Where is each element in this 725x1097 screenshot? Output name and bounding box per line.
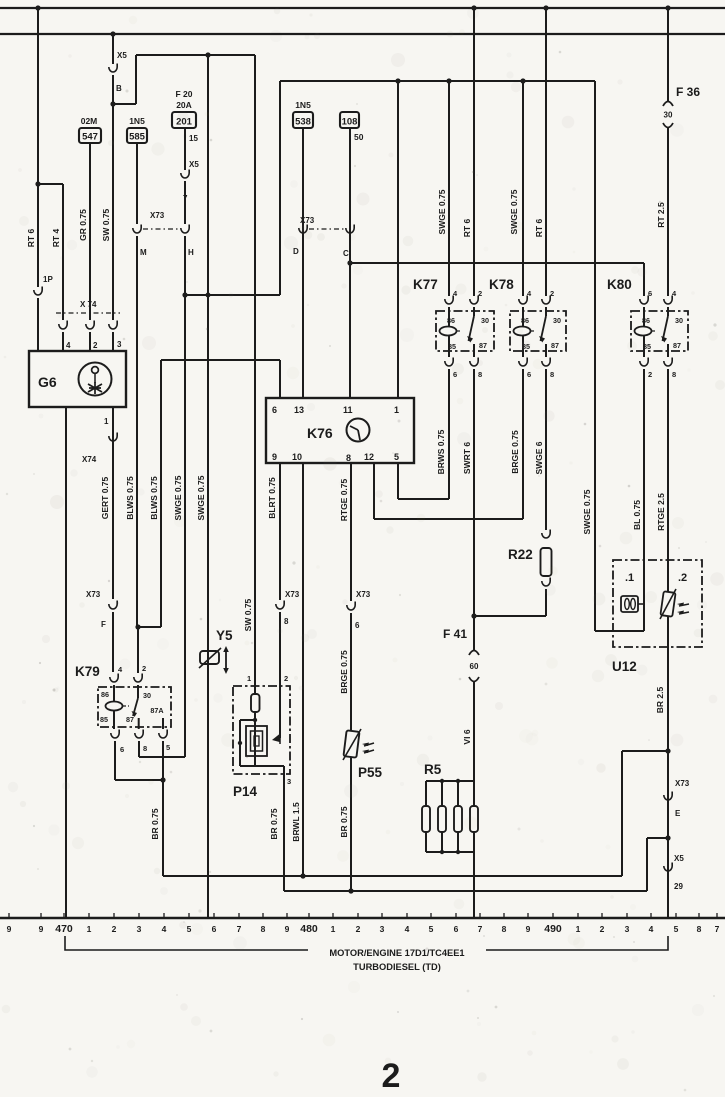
node junction x185 y295 [182, 292, 187, 297]
svg-text:87: 87 [126, 715, 134, 724]
wire RT6 drop from bus1 [37, 8, 39, 184]
node junction bus1 x546 [543, 5, 548, 10]
svg-text:K77: K77 [413, 277, 438, 292]
node junction x351 y891 [348, 888, 353, 893]
svg-text:X73: X73 [300, 216, 315, 225]
svg-text:6: 6 [648, 289, 652, 298]
wire SWGE to U12 [594, 81, 596, 631]
svg-text:6: 6 [272, 405, 277, 415]
svg-text:VI 6: VI 6 [462, 729, 472, 744]
node junction bus1 x668 [665, 5, 670, 10]
node junction rail x523 [520, 78, 525, 83]
wire 585 down [136, 143, 138, 224]
svg-text:RT 6: RT 6 [462, 219, 472, 238]
arrow P14 [272, 734, 280, 742]
box 108 [340, 112, 359, 128]
svg-text:GR 0.75: GR 0.75 [78, 209, 88, 241]
wire K79 pin5 out [162, 741, 164, 876]
wire K76 pin1 to rail [397, 81, 399, 398]
svg-text:E: E [675, 809, 681, 818]
svg-text:8: 8 [672, 370, 676, 379]
svg-text:K79: K79 [75, 664, 100, 679]
wire link y360 [161, 359, 280, 361]
svg-text:6: 6 [120, 745, 124, 754]
connector X74 pin3 [109, 321, 117, 330]
node junction P14 [253, 718, 257, 722]
svg-text:1: 1 [394, 405, 399, 415]
wire K79 coil [113, 685, 115, 702]
connector X74 pin4 [59, 321, 67, 330]
svg-text:86: 86 [101, 690, 109, 699]
wire pin4 stub [62, 332, 64, 352]
svg-text:SW 0.75: SW 0.75 [243, 598, 253, 631]
wire U12.2 through [667, 591, 669, 592]
svg-text:9: 9 [285, 924, 290, 934]
node junction x138 y627 [135, 624, 140, 629]
svg-text:SWGE 0.75: SWGE 0.75 [582, 489, 592, 534]
wire X73 dashed [143, 228, 180, 230]
wire branch right [113, 103, 136, 105]
resistor R22 bottom hook [542, 578, 550, 587]
svg-text:13: 13 [294, 405, 304, 415]
svg-text:SWGE 0.75: SWGE 0.75 [196, 475, 206, 520]
connector X74 pin2 [86, 321, 94, 330]
svg-text:87A: 87A [150, 706, 163, 715]
wire rail y81 [280, 80, 595, 82]
svg-text:7: 7 [478, 924, 483, 934]
wire 1P to G6 [37, 184, 39, 287]
node junction x668 y838 [665, 835, 670, 840]
svg-text:BLWS 0.75: BLWS 0.75 [149, 476, 159, 520]
wire 201 down [184, 128, 186, 170]
resistor R22 top hook [542, 530, 550, 539]
svg-text:1N5: 1N5 [129, 116, 145, 126]
element U12.2 glow plug [660, 591, 675, 616]
sensor P14 box [233, 686, 290, 774]
svg-text:8: 8 [346, 453, 351, 463]
svg-text:8: 8 [502, 924, 507, 934]
wire P14 pin3 out [283, 766, 285, 891]
svg-text:5: 5 [394, 452, 399, 462]
svg-text:1: 1 [104, 417, 109, 426]
connector X5 pin7 [181, 170, 189, 179]
svg-text:.1: .1 [625, 572, 634, 584]
wire branch to RT4 [38, 183, 63, 185]
svg-text:2: 2 [478, 289, 482, 298]
svg-text:30: 30 [675, 316, 683, 325]
svg-text:50: 50 [354, 132, 364, 142]
svg-text:3: 3 [380, 924, 385, 934]
svg-text:.2: .2 [678, 572, 687, 584]
svg-text:585: 585 [129, 132, 146, 143]
generator G6 box [29, 351, 126, 407]
connector X73 pin D [299, 225, 307, 234]
wire pin12 down [373, 463, 375, 519]
box 585 [127, 128, 147, 143]
wire P14 loop [240, 719, 255, 721]
svg-text:4: 4 [162, 924, 167, 934]
svg-text:RT 2.5: RT 2.5 [656, 202, 666, 228]
svg-text:29: 29 [674, 882, 683, 891]
svg-text:SW 0.75: SW 0.75 [101, 208, 111, 241]
wire K77 pin6 out [448, 369, 450, 499]
svg-text:2: 2 [142, 664, 146, 673]
svg-text:MOTOR/ENGINE 17D1/TC4EE1: MOTOR/ENGINE 17D1/TC4EE1 [329, 948, 464, 958]
svg-text:108: 108 [342, 117, 358, 128]
switch K79 [137, 685, 139, 698]
svg-text:547: 547 [82, 132, 98, 143]
bracket motor group [65, 936, 668, 950]
wire P14 pin2 in [279, 686, 281, 738]
svg-text:BLRT 0.75: BLRT 0.75 [267, 477, 277, 519]
wire RT2.5 [667, 128, 669, 296]
svg-text:1: 1 [331, 924, 336, 934]
svg-text:SWGE 6: SWGE 6 [534, 441, 544, 474]
svg-text:02M: 02M [81, 116, 98, 126]
node junction x350 y263 [347, 260, 352, 265]
element P14 transducer [246, 726, 267, 756]
svg-text:X73: X73 [675, 779, 690, 788]
connector X73 pinF [109, 601, 117, 610]
wire RT4 down [62, 184, 64, 320]
wire bus line 30 (battery +) [0, 7, 725, 9]
svg-text:6: 6 [454, 924, 459, 934]
connector 1P [34, 287, 42, 296]
svg-text:C: C [343, 249, 349, 258]
svg-text:SWRT 6: SWRT 6 [462, 442, 472, 474]
svg-text:RT 6: RT 6 [534, 219, 544, 238]
svg-text:K76: K76 [307, 425, 333, 441]
connector X73 pin H [181, 225, 189, 234]
svg-text:2: 2 [382, 1057, 401, 1095]
box 547 [79, 128, 101, 143]
svg-text:8: 8 [143, 744, 147, 753]
wire SW drop x255 [254, 55, 256, 686]
box 538 [293, 112, 313, 128]
svg-text:4: 4 [405, 924, 410, 934]
svg-text:2: 2 [284, 674, 288, 683]
svg-text:6: 6 [212, 924, 217, 934]
wire P55 out [350, 757, 352, 891]
svg-text:X5: X5 [117, 51, 127, 60]
glow unit U12 box [613, 560, 702, 647]
svg-text:60: 60 [470, 662, 479, 671]
wire F36 from bus1 [667, 8, 669, 101]
svg-text:8: 8 [261, 924, 266, 934]
node junction x303 y876 [300, 873, 305, 878]
svg-text:3: 3 [117, 340, 122, 349]
svg-text:P14: P14 [233, 784, 258, 799]
svg-text:87: 87 [479, 341, 487, 350]
node junction bus1 x38 [35, 5, 40, 10]
wire K77 pin8 out [473, 369, 475, 650]
svg-text:SWGE 0.75: SWGE 0.75 [173, 475, 183, 520]
connector K79 pin8 [135, 730, 143, 739]
wire K79 pin8 link [138, 741, 140, 757]
connector K79 pin5 [159, 730, 167, 739]
wire pin9 down [279, 463, 281, 600]
node junction x113 y104 [110, 101, 115, 106]
svg-text:BRGE 0.75: BRGE 0.75 [510, 430, 520, 474]
relay K79 box [98, 687, 171, 727]
svg-text:X5: X5 [674, 854, 684, 863]
svg-text:8: 8 [478, 370, 482, 379]
node junctions R5 [440, 779, 444, 783]
wire pin5 down [397, 463, 399, 499]
wire link y295 [185, 294, 280, 296]
svg-text:30: 30 [481, 316, 489, 325]
track wire stubs [65, 910, 67, 918]
svg-text:BR 2.5: BR 2.5 [655, 687, 665, 714]
svg-text:TURBODIESEL (TD): TURBODIESEL (TD) [353, 962, 441, 972]
svg-text:4: 4 [649, 924, 654, 934]
svg-text:9: 9 [7, 924, 12, 934]
node junction x163 y780 [160, 777, 165, 782]
svg-text:3: 3 [625, 924, 630, 934]
svg-text:X73: X73 [150, 211, 165, 220]
svg-text:7: 7 [715, 924, 720, 934]
svg-text:G6: G6 [38, 374, 57, 390]
svg-text:87: 87 [551, 341, 559, 350]
wire pin2 stub [89, 332, 91, 352]
svg-text:30: 30 [664, 110, 673, 119]
node junction x38 y184 [35, 181, 40, 186]
wire riser x647 [646, 838, 648, 891]
svg-text:9: 9 [39, 924, 44, 934]
svg-text:Y5: Y5 [216, 628, 233, 643]
svg-text:2: 2 [550, 289, 554, 298]
svg-text:5: 5 [166, 743, 170, 752]
node junction rail x449 [446, 78, 451, 83]
element U12.1 [621, 596, 638, 612]
svg-text:8: 8 [697, 924, 702, 934]
svg-text:F 36: F 36 [676, 85, 700, 99]
sensor P55 [343, 730, 359, 757]
svg-text:30: 30 [143, 691, 151, 700]
resistor in P14 [254, 686, 256, 694]
current track ticks [8, 913, 10, 918]
wire K77 coil feed [448, 81, 450, 296]
wire G6 ground to rail31 [65, 407, 67, 918]
node junction bus2 x113 [110, 31, 115, 36]
wire pin3 stub [112, 332, 114, 352]
resistor R22 [541, 548, 552, 576]
wire X74 dashed line [56, 312, 120, 314]
wire BR2.5 [667, 647, 669, 918]
wire pin8 to P55 [350, 613, 352, 731]
wire K79 pin6 out [114, 741, 116, 780]
svg-text:1P: 1P [43, 275, 53, 284]
wire K76 pin6 stub [279, 360, 281, 398]
wire K80 feed [350, 262, 644, 264]
svg-text:F 41: F 41 [443, 627, 467, 641]
svg-text:8: 8 [550, 370, 554, 379]
svg-text:X73: X73 [356, 590, 371, 599]
svg-text:30: 30 [553, 316, 561, 325]
connector K79 pin2 [134, 674, 142, 683]
svg-text:87: 87 [673, 341, 681, 350]
svg-text:3: 3 [287, 777, 291, 786]
wire F20 down [184, 236, 186, 757]
svg-text:X74: X74 [82, 455, 97, 464]
fuse F41 [469, 651, 479, 656]
wire rail riser x280 [279, 81, 281, 295]
svg-text:X5: X5 [189, 160, 199, 169]
svg-text:5: 5 [674, 924, 679, 934]
generator G6 symbol [79, 363, 112, 396]
connector X73 pin6 [347, 602, 355, 611]
svg-text:2: 2 [648, 370, 652, 379]
solenoid Y5 [200, 651, 219, 664]
glow plug resistor R5.3 [457, 781, 459, 806]
svg-text:10: 10 [292, 452, 302, 462]
wire bus line 2 [0, 33, 725, 35]
svg-text:X73: X73 [285, 590, 300, 599]
connector X73 pin8 [276, 601, 284, 610]
svg-text:BLWS 0.75: BLWS 0.75 [125, 476, 135, 520]
wire R5 to rail31 [473, 852, 475, 918]
svg-text:20A: 20A [176, 100, 192, 110]
svg-text:BR 0.75: BR 0.75 [269, 808, 279, 839]
svg-text:P55: P55 [358, 765, 383, 780]
node junction x474 y616 [471, 613, 476, 618]
wire 538 down [302, 128, 304, 398]
svg-text:480: 480 [300, 923, 318, 935]
wire gather y891 [284, 890, 647, 892]
wire 585 to K79 pin2 [136, 236, 138, 627]
wire gather y876 [163, 875, 622, 877]
svg-text:1: 1 [87, 924, 92, 934]
svg-text:F: F [101, 620, 106, 629]
svg-text:BRWL 1.5: BRWL 1.5 [291, 802, 301, 842]
svg-text:2: 2 [93, 341, 98, 350]
svg-text:470: 470 [55, 923, 73, 935]
box 201 [172, 112, 196, 128]
wire K78 coil feed [522, 81, 524, 296]
node junction x208 y295 [206, 293, 211, 298]
connector X5 pin B [109, 64, 117, 73]
svg-text:9: 9 [272, 452, 277, 462]
svg-text:BRGE 0.75: BRGE 0.75 [339, 650, 349, 694]
svg-text:8: 8 [284, 617, 289, 626]
svg-text:5: 5 [429, 924, 434, 934]
wire SW0.75 from bus2 [112, 34, 114, 64]
node junction P14 b [238, 741, 242, 745]
svg-text:1: 1 [247, 674, 251, 683]
wire to X73 [184, 181, 186, 224]
fuse F36 [663, 102, 673, 107]
wire U12 link [595, 630, 644, 632]
svg-text:BRWS 0.75: BRWS 0.75 [436, 429, 446, 474]
svg-text:2: 2 [356, 924, 361, 934]
wire pin9 to P14 [279, 612, 281, 686]
connector X73 pin M [133, 225, 141, 234]
wire R22 out [545, 589, 547, 616]
wire riser x622 [621, 751, 623, 876]
node junction x208 y55 [205, 52, 210, 57]
svg-text:RT 6: RT 6 [26, 229, 36, 248]
node junction x668 y751 [665, 748, 670, 753]
wire GR0.75 down [89, 143, 91, 320]
glow plug resistor R5.2 [441, 781, 443, 806]
node junction rail x398 [395, 78, 400, 83]
wire rail 31 track line [0, 917, 725, 919]
svg-text:9: 9 [526, 924, 531, 934]
svg-text:SWGE 0.75: SWGE 0.75 [437, 189, 447, 234]
wire K80 pin8 out [667, 369, 669, 591]
wire K79 87A stub [162, 718, 164, 729]
svg-text:15: 15 [189, 134, 198, 143]
svg-text:GERT 0.75: GERT 0.75 [100, 476, 110, 519]
wire pin10 down [302, 463, 304, 876]
wire 108 down [349, 128, 351, 398]
svg-text:K78: K78 [489, 277, 514, 292]
svg-text:85: 85 [100, 715, 108, 724]
svg-text:1N5: 1N5 [295, 100, 311, 110]
svg-text:X 74: X 74 [80, 300, 97, 309]
wire pin8 down [350, 463, 352, 601]
svg-text:6: 6 [527, 370, 531, 379]
arrow Y5 [225, 651, 227, 669]
svg-text:2: 2 [112, 924, 117, 934]
connector X73 pinE [664, 792, 672, 801]
svg-text:4: 4 [66, 341, 71, 350]
wire SWGE drop x208 [207, 55, 209, 918]
svg-text:3: 3 [137, 924, 142, 934]
svg-text:BL 0.75: BL 0.75 [632, 500, 642, 530]
node junction bus1 x474 [471, 5, 476, 10]
glow plug resistor R5.4 [473, 781, 475, 806]
svg-text:BR 0.75: BR 0.75 [339, 806, 349, 837]
svg-text:490: 490 [544, 923, 562, 935]
svg-text:7: 7 [237, 924, 242, 934]
svg-text:12: 12 [364, 452, 374, 462]
connector X5 pin29 [664, 863, 672, 872]
connector K79 pin6 [111, 730, 119, 739]
svg-text:1: 1 [576, 924, 581, 934]
svg-text:6: 6 [355, 621, 360, 630]
wire BLWS b down [160, 360, 162, 627]
svg-text:11: 11 [343, 405, 353, 415]
svg-text:BR 0.75: BR 0.75 [150, 808, 160, 839]
timer symbol [347, 419, 370, 442]
wire K80 pin2 out [643, 369, 645, 631]
coil K79 [106, 702, 123, 711]
connector X74 lower [109, 433, 117, 442]
connector X73 pin C [346, 225, 354, 234]
svg-text:538: 538 [295, 117, 311, 128]
wire K77 sw feed [473, 8, 475, 296]
wire G6 pin1 down [112, 407, 114, 599]
svg-text:H: H [188, 248, 194, 257]
svg-text:5: 5 [187, 924, 192, 934]
resistor bank R5 rails [426, 780, 474, 782]
control unit K76 box [266, 398, 414, 463]
svg-text:2: 2 [600, 924, 605, 934]
wire K78 pin6 out [522, 369, 524, 519]
svg-text:M: M [140, 248, 147, 257]
glow plug resistor R5.1 [425, 781, 427, 806]
svg-text:X73: X73 [86, 590, 101, 599]
wire X73 dashed b [309, 228, 344, 230]
wire X5 to X74 [112, 75, 114, 320]
wire K78 pin8 out [545, 369, 547, 530]
connector K79 pin4 [110, 674, 118, 683]
wire K78 sw feed [545, 8, 547, 296]
svg-text:B: B [116, 84, 122, 93]
svg-text:R22: R22 [508, 547, 533, 562]
svg-text:K80: K80 [607, 277, 632, 292]
